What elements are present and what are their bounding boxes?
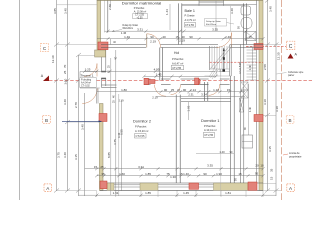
svg-text:3.15: 3.15 [268, 146, 272, 152]
grid marker C left [41, 44, 49, 52]
svg-text:3.31: 3.31 [138, 165, 144, 169]
svg-text:60x120cm: 60x120cm [123, 28, 134, 30]
chimney block [95, 50, 106, 57]
svg-text:P:Parchet: P:Parchet [204, 124, 216, 128]
svg-text:1.90: 1.90 [216, 172, 222, 176]
stair break diagonals [211, 47, 230, 69]
svg-text:3.75: 3.75 [57, 152, 61, 158]
baie interior line [215, 0, 217, 31]
svg-text:1.60: 1.60 [119, 172, 125, 176]
svg-text:3.40: 3.40 [81, 124, 85, 130]
svg-text:B: B [289, 118, 292, 123]
svg-text:C: C [289, 44, 293, 50]
svg-text:40: 40 [162, 35, 166, 39]
svg-text:B: B [45, 118, 48, 123]
svg-text:3.10: 3.10 [63, 78, 67, 84]
svg-text:2.19: 2.19 [150, 39, 156, 43]
svg-text:17x17,5/28: 17x17,5/28 [240, 62, 242, 74]
svg-text:A:13,41 m²: A:13,41 m² [204, 128, 217, 132]
window bottom 1 [114, 184, 140, 186]
terasa door arc upper [84, 64, 97, 77]
row y=38.5 [97, 38, 263, 40]
balcony door arc lower (outside) [82, 89, 97, 104]
svg-text:3.15: 3.15 [74, 154, 78, 160]
svg-text:A:6,47 m²: A:6,47 m² [172, 61, 183, 65]
svg-text:90: 90 [183, 88, 187, 92]
right stairs treads (descend) [247, 47, 257, 80]
svg-text:25: 25 [100, 165, 104, 169]
baie door arc [217, 33, 232, 48]
interior rotated dims [107, 4, 234, 195]
bedroom door arc [146, 34, 148, 48]
row y=168.5 [85, 168, 263, 170]
baie fixtures [241, 6, 256, 41]
extension ticks left margin [54, 43, 81, 193]
svg-text:90: 90 [203, 172, 207, 176]
svg-text:P:Parchet: P:Parchet [134, 6, 145, 10]
left exterior wall (tan) [97, 0, 103, 191]
svg-text:A:4,04 m²: A:4,04 m² [81, 82, 91, 85]
bottom exterior wall [100, 183, 263, 190]
page frame line left [19, 0, 21, 200]
svg-text:CT:2,55: CT:2,55 [204, 133, 213, 137]
D1 window dim row [196, 153, 234, 155]
svg-text:3.40: 3.40 [63, 99, 67, 105]
row y=93.5 [97, 91, 245, 93]
solid segments [107, 183, 114, 190]
svg-text:10: 10 [260, 164, 264, 168]
svg-text:1.18: 1.18 [219, 68, 225, 72]
svg-text:1.80: 1.80 [121, 88, 127, 92]
svg-text:2.78: 2.78 [74, 102, 78, 108]
svg-text:3.75: 3.75 [113, 139, 117, 145]
wall x=204.5 vertical (stair well) [204, 82, 206, 101]
svg-text:70: 70 [63, 64, 67, 68]
label coborare [277, 71, 304, 77]
red corner piers [98, 42, 263, 190]
grid marker A left [44, 184, 52, 192]
stairs (hol, going up) [205, 45, 232, 197]
label terasa [80, 74, 97, 88]
row y=175.5 [97, 175, 263, 177]
terasa door jambs [101, 71, 106, 73]
dim line x=276 [275, 0, 277, 196]
svg-text:3.40: 3.40 [230, 8, 234, 14]
svg-text:12.30: 12.30 [277, 52, 281, 60]
interior wall bedroom/baie vertical [178, 3, 180, 44]
svg-text:8.85: 8.85 [107, 152, 111, 158]
section marker A left (triangle) [41, 74, 49, 81]
svg-text:P:Parchet: P:Parchet [135, 125, 147, 129]
terasa platform edge [80, 71, 97, 73]
row y=70 hol [85, 70, 215, 72]
svg-text:3.40: 3.40 [63, 152, 67, 158]
svg-text:3.40: 3.40 [64, 8, 68, 14]
svg-text:1.40: 1.40 [249, 107, 252, 112]
svg-text:Limita de: Limita de [289, 151, 300, 155]
svg-text:1.81: 1.81 [225, 191, 231, 195]
svg-text:+2,55: +2,55 [136, 16, 143, 19]
door arc under stairs [209, 84, 220, 95]
svg-text:3.10: 3.10 [275, 106, 279, 112]
label baie 1 [184, 9, 196, 27]
D1 north wall [181, 98, 231, 100]
svg-text:Dormitor 1: Dormitor 1 [201, 119, 220, 123]
svg-text:2.19: 2.19 [179, 38, 185, 42]
interior wall baie right partition [243, 3, 245, 44]
door arc hol->D1 [171, 85, 181, 95]
left wall inner face lines [107, 0, 109, 33]
door arc hol->D2 [155, 85, 167, 97]
svg-text:15: 15 [238, 172, 242, 176]
hol/bedrooms south wall band y=82-84.7 [144, 79, 230, 85]
blue leader line [62, 120, 101, 122]
section line C dashes right [246, 45, 286, 47]
svg-text:3.31: 3.31 [137, 27, 143, 31]
label: limita de proprietate [283, 151, 302, 159]
label hol [171, 51, 183, 70]
window bottom 2 [158, 184, 189, 186]
svg-text:1.40: 1.40 [219, 150, 225, 154]
svg-text:4.95: 4.95 [154, 68, 160, 72]
interior vertical dim lines [115, 50, 117, 196]
svg-text:75: 75 [171, 88, 175, 92]
red piers on band [144, 78, 149, 84]
svg-text:1.40: 1.40 [183, 172, 189, 176]
grid marker A right [287, 184, 295, 192]
grid marker B left [43, 116, 51, 124]
right exterior wall (tan) [259, 0, 263, 190]
svg-text:CT:2,55: CT:2,55 [185, 23, 194, 27]
svg-text:2.70: 2.70 [108, 4, 112, 10]
window jambs baie [198, 0, 200, 6]
bottom extension verticals [97, 191, 263, 198]
svg-text:15: 15 [248, 35, 252, 39]
svg-text:1.25: 1.25 [85, 68, 91, 72]
svg-text:Terasa 1: Terasa 1 [81, 74, 95, 78]
svg-text:1.44: 1.44 [165, 9, 169, 15]
svg-text:2.40: 2.40 [225, 35, 231, 39]
svg-text:A: 15,20 m²: A: 15,20 m² [135, 129, 149, 133]
svg-text:Dulap tip Votan: Dulap tip Votan [206, 20, 222, 23]
svg-text:12.30: 12.30 [51, 55, 55, 63]
svg-text:1.30: 1.30 [170, 175, 176, 179]
svg-text:2.31: 2.31 [188, 93, 194, 97]
svg-text:2.14: 2.14 [190, 88, 196, 92]
svg-text:CT:-0,02: CT:-0,02 [81, 86, 90, 88]
section line A-A (red dashed horizontal) [49, 79, 312, 81]
dim line x=84.6 [84, 93, 86, 196]
dim line x=56.5 [56, 0, 58, 191]
label dormitor 2 [133, 120, 151, 139]
bedroom west wall inner face pair [109, 0, 111, 8]
dim line x=78.5 [78, 55, 80, 196]
extension horizontals from building to left dims [57, 5, 100, 191]
svg-text:60x120cm: 60x120cm [206, 24, 216, 26]
dim slash ticks [83, 30, 265, 197]
grid marker B right [286, 116, 294, 124]
right niche closet [241, 82, 249, 135]
svg-text:3.35: 3.35 [207, 164, 213, 168]
baie top wall inner face [182, 4, 257, 6]
svg-text:P:decking: P:decking [81, 80, 92, 82]
svg-text:Dormitor 2: Dormitor 2 [133, 120, 151, 124]
row y=196.5 [79, 194, 277, 196]
top exterior wall (mostly cropped above frame) [97, 0, 263, 1]
left dim numbers rotated [51, 8, 85, 160]
svg-text:40: 40 [114, 56, 118, 60]
note dulap 1 [112, 24, 139, 32]
svg-text:90: 90 [189, 35, 193, 39]
row y=31 [105, 30, 246, 32]
property line right [280, 0, 282, 200]
hol west wall [159, 48, 161, 81]
svg-text:Baie 1: Baie 1 [185, 9, 196, 13]
label dormitor 1 [201, 119, 220, 137]
svg-text:1.40: 1.40 [124, 35, 130, 39]
svg-text:20: 20 [255, 164, 259, 168]
svg-text:parter: parter [288, 74, 294, 77]
svg-text:2.19: 2.19 [152, 96, 158, 100]
section marker A right (triangle) [288, 53, 298, 59]
label dormitor matrimonial [122, 0, 162, 19]
svg-text:A:3,79 m²: A:3,79 m² [185, 18, 196, 22]
svg-text:90: 90 [164, 88, 168, 92]
svg-text:1.85: 1.85 [145, 191, 151, 195]
svg-text:1.10: 1.10 [213, 88, 219, 92]
svg-text:95: 95 [255, 172, 259, 176]
svg-text:25: 25 [63, 70, 67, 74]
row y=180.5 partial [170, 172, 258, 180]
D1/D2 partition wall [175, 95, 177, 183]
horizontal wall y=44.5 (south of top rooms) [101, 45, 263, 48]
svg-text:1.40: 1.40 [249, 65, 252, 70]
svg-text:3.40: 3.40 [268, 6, 272, 12]
svg-text:3.35: 3.35 [212, 27, 218, 31]
note dulap 2 [205, 19, 235, 27]
svg-text:CT:2,55: CT:2,55 [172, 66, 181, 70]
svg-text:Hol: Hol [174, 51, 179, 55]
stair direction arrow [223, 48, 225, 69]
svg-text:CT:2,55: CT:2,55 [136, 134, 145, 138]
dim line x=267.5 [267, 0, 269, 191]
svg-text:2.58: 2.58 [263, 64, 267, 70]
dim line x=67.5 [67, 0, 69, 191]
svg-text:Dormitor matrimonial: Dormitor matrimonial [122, 0, 162, 5]
svg-text:3.85: 3.85 [53, 8, 57, 14]
grid marker C right [287, 41, 295, 50]
svg-text:90: 90 [150, 35, 154, 39]
D1 wardrobe [242, 135, 253, 148]
svg-text:P:Gresie: P:Gresie [185, 14, 196, 18]
svg-text:15: 15 [94, 165, 98, 169]
window bottom 3 [199, 184, 214, 186]
D1 east wall [230, 76, 232, 183]
svg-text:P:Parchet: P:Parchet [172, 57, 184, 61]
svg-text:proprietate: proprietate [289, 155, 302, 159]
wall stub left y=85-87.5 [102, 84, 117, 86]
svg-text:3.34: 3.34 [201, 93, 207, 97]
svg-text:1.85: 1.85 [145, 172, 151, 176]
svg-text:35: 35 [270, 168, 274, 172]
svg-text:1.45: 1.45 [183, 191, 189, 195]
svg-text:3.10: 3.10 [263, 99, 267, 105]
svg-text:15: 15 [270, 176, 274, 180]
